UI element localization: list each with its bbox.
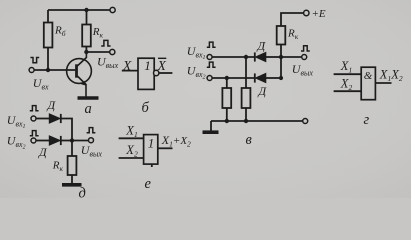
terminal: Uvx input (open circle) <box>29 68 34 73</box>
svg-text:+E: +E <box>312 8 326 20</box>
wire: D1 anode to common node <box>266 56 281 58</box>
label X1+X2 output of OR symbol <box>161 133 191 149</box>
wire: Rk top rail down to Rk <box>86 10 88 25</box>
label X1 input of OR symbol <box>125 123 137 139</box>
label 1 inside NOT symbol <box>144 58 151 73</box>
diode D2 of circuit d <box>49 136 61 145</box>
wire: ground rail of circuit v <box>211 120 303 122</box>
wire: input 1 to diode D1 (circuit d) <box>36 118 49 120</box>
resistor R2 body (circuit v left) <box>222 88 231 108</box>
wire: input 2 wire to diode D2 (circuit v) <box>212 77 255 79</box>
wire: R1 bottom to ground rail <box>245 108 247 121</box>
node: R1 ground rail junction dot <box>244 119 248 123</box>
caption v <box>246 132 253 148</box>
wire: +E to Rk (circuit v) <box>281 13 304 26</box>
label Uvyx of circuit d <box>81 143 103 159</box>
svg-text:б: б <box>142 100 150 116</box>
label D of diode D2 (circuit v) <box>258 84 268 98</box>
caption b <box>142 100 150 116</box>
wire: D2 cathode to common node <box>61 140 72 142</box>
label 1 inside OR symbol <box>148 135 155 150</box>
node: R2 ground rail junction dot <box>225 119 229 123</box>
terminal: +E supply of circuit v (open circle) <box>304 10 309 15</box>
wire: input to transistor base <box>34 69 75 71</box>
pulse symbol: negative pulse at Uvx input <box>30 58 39 63</box>
svg-text:&: & <box>364 70 373 82</box>
terminal: circuit a supply terminal (open circle) <box>110 7 115 12</box>
wire: OR symbol output line <box>158 147 173 149</box>
pulse symbol: positive pulse at Uvx2 (circuit v) <box>207 62 216 67</box>
transistor VT1 emitter lead with arrow <box>77 76 86 97</box>
wire: D1 cathode over and down to common node <box>61 119 72 141</box>
label Uvyx of circuit v <box>292 62 314 78</box>
caption d <box>79 186 86 202</box>
node: base node junction dot <box>46 68 50 72</box>
svg-text:X1+X2: X1+X2 <box>161 133 191 149</box>
label Uvx1 of circuit v <box>187 44 206 61</box>
label X1 input of AND symbol <box>340 59 352 75</box>
wire: Rk bottom to ground (circuit d) <box>71 175 73 183</box>
ground: circuit d ground bar <box>62 183 82 187</box>
pulse symbol: positive pulse at circuit a output <box>101 40 110 46</box>
wire: Rk bottom to AND common node <box>280 45 282 58</box>
wire: common node down to Rk (circuit d) <box>71 141 73 157</box>
label Rb of circuit a <box>54 25 66 39</box>
pulse symbol: positive pulse at circuit d output <box>87 128 96 133</box>
terminal: Uvyx output of circuit d (open circle) <box>89 138 94 143</box>
pulse symbol: positive pulse at Uvx2 (circuit d) <box>30 131 39 136</box>
label X2 input of OR symbol <box>125 143 138 159</box>
label Uvx1 of circuit d <box>7 113 26 130</box>
wire: input 2 to diode D2 (circuit d) <box>36 140 49 142</box>
svg-text:1: 1 <box>148 135 155 150</box>
label Uvx2 of circuit d <box>7 133 26 150</box>
wire: input 2 down to resistor R2 <box>226 78 228 88</box>
node: junction of R2 divider on input 2 <box>225 76 229 80</box>
caption g <box>364 112 370 128</box>
transistor VT1 base bar <box>75 64 78 77</box>
ground: emitter ground bar of circuit a <box>78 96 99 100</box>
svg-text:г: г <box>364 112 370 128</box>
wire: D2 anode to common node vertical <box>266 77 281 79</box>
wire: NOT symbol input line with underline of X <box>122 70 138 72</box>
wire: AND symbol output line <box>375 82 391 84</box>
wire: circuit v output wire <box>281 56 302 58</box>
label D of diode D2 (circuit d) <box>38 145 48 159</box>
label X1X2 output of AND symbol <box>379 67 403 83</box>
resistor R1 body (circuit v right) <box>242 88 251 108</box>
node: lower diode anode junction dot <box>279 76 283 80</box>
logic gate: AND symbol rectangle (g) <box>361 67 375 100</box>
label Rk of circuit d <box>52 160 64 174</box>
label Rk of circuit v <box>287 28 299 42</box>
wire: AND symbol input line 1 with underline of X1 <box>334 73 362 75</box>
inversion bubble of NOT symbol <box>154 70 159 75</box>
wire: AND symbol input line 2 with underline of X2 <box>334 90 362 92</box>
wire: input 1 down to resistor R1 crossing input 2 wire <box>245 57 247 88</box>
wire: common node vertical to lower diode <box>280 57 282 78</box>
wire: Rb bottom to base node <box>47 48 49 71</box>
resistor Rk body (circuit a) <box>82 25 91 47</box>
label Rk of circuit a <box>92 26 104 40</box>
transistor VT1 collector lead <box>77 52 86 66</box>
terminal: ground rail right terminal (open circle) <box>303 119 308 124</box>
wire: Rk bottom to collector node <box>85 47 87 53</box>
label X2 input of AND symbol <box>340 76 353 92</box>
pulse symbol: positive pulse at Uvx1 (circuit d) <box>30 106 39 111</box>
label X input of NOT symbol <box>122 58 132 73</box>
terminal: Uvyx output of circuit a (open circle) <box>110 49 115 54</box>
label D of diode D1 (circuit v) <box>257 38 267 52</box>
wire: circuit a top supply rail <box>48 9 110 11</box>
label Uvx of circuit a <box>33 76 49 92</box>
node: collector/output junction dot <box>84 50 88 54</box>
terminal: Uvx1 input of circuit v (open circle) <box>207 55 212 60</box>
resistor Rk body (circuit d) <box>68 156 77 175</box>
wire: top rail down to Rb <box>47 10 49 23</box>
svg-text:в: в <box>246 132 253 148</box>
svg-text:е: е <box>145 176 152 192</box>
resistor Rk body (circuit v) <box>277 26 286 45</box>
caption a <box>85 101 92 117</box>
svg-text:X: X <box>157 58 167 73</box>
node: junction of Rk with top rail <box>84 8 88 12</box>
resistor Rb body <box>44 23 53 48</box>
label Uvx2 of circuit v <box>187 64 206 81</box>
svg-text:а: а <box>85 101 92 117</box>
overbar of output label X <box>158 57 166 59</box>
svg-text:д: д <box>79 186 86 199</box>
svg-text:Д: Д <box>257 38 267 52</box>
wire: output of circuit a <box>86 51 109 53</box>
pulse symbol: positive pulse at Uvx1 (circuit v) <box>207 42 216 47</box>
terminal: Uvyx output of circuit v (open circle) <box>302 55 307 60</box>
node: common OR node junction dot <box>70 138 74 142</box>
label X-bar output of NOT symbol <box>157 58 167 73</box>
label +E supply of circuit v <box>312 8 326 20</box>
pulse symbol: positive pulse at circuit v output <box>301 46 310 51</box>
svg-text:Д: Д <box>38 145 48 159</box>
wire: OR symbol input line 2 with underline of X2 <box>119 157 144 159</box>
wire: input 1 wire to diode D1 (circuit v) <box>212 56 255 58</box>
terminal: Uvx2 input of circuit d (open circle) <box>31 138 36 143</box>
caption e <box>145 176 152 192</box>
node: junction of R1 divider on input 1 <box>244 55 248 59</box>
transistor VT1 circle <box>67 59 92 84</box>
logic gate: NOT symbol rectangle (b) <box>138 58 154 89</box>
logic gate: OR symbol rectangle (e) <box>144 135 158 165</box>
node: AND common node junction dot <box>279 55 283 59</box>
diode D2 of circuit v (cathode bar left, pointing left) <box>255 73 266 82</box>
terminal: Uvx2 input of circuit v (open circle) <box>207 76 212 81</box>
terminal: Uvx1 input of circuit d (open circle) <box>31 116 36 121</box>
wire: NOT symbol output line <box>159 72 172 74</box>
wire: circuit d output wire <box>72 140 89 142</box>
svg-text:X: X <box>122 58 132 73</box>
label ampersand inside AND symbol <box>364 70 373 82</box>
node: small stub under OR symbol rectangle <box>151 164 153 167</box>
svg-text:1: 1 <box>144 58 151 73</box>
label D of diode D1 (circuit d) <box>47 98 57 112</box>
diode D1 of circuit d <box>49 114 61 123</box>
ground: circuit v ground symbol <box>203 121 219 132</box>
diode D1 of circuit v (cathode bar left, pointing left) <box>255 52 266 61</box>
svg-text:Д: Д <box>47 98 57 112</box>
wire: R2 bottom to ground rail <box>226 108 228 121</box>
label Uvyx of circuit a <box>97 55 119 71</box>
svg-text:Д: Д <box>258 84 268 98</box>
wire: OR symbol input line 1 with underline of X1 <box>119 137 144 139</box>
